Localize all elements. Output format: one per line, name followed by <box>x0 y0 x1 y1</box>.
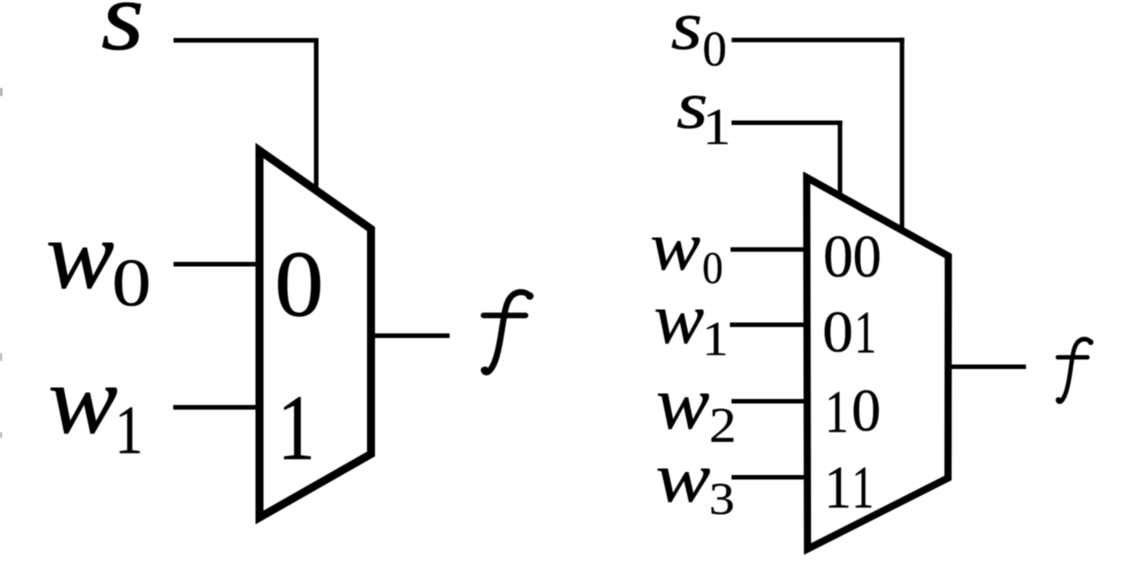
svg-text:w: w <box>650 208 700 284</box>
svg-text:s: s <box>101 0 144 70</box>
svg-text:3: 3 <box>709 475 735 525</box>
svg-text:0: 0 <box>853 223 882 289</box>
svg-text:1: 1 <box>825 377 849 445</box>
svg-text:1: 1 <box>854 300 876 366</box>
svg-text:1: 1 <box>702 312 728 366</box>
svg-text:0: 0 <box>702 243 723 293</box>
svg-text:0: 0 <box>112 244 151 320</box>
svg-text:1: 1 <box>852 455 874 521</box>
svg-text:w: w <box>654 280 704 360</box>
svg-text:0: 0 <box>823 223 853 290</box>
svg-text:1: 1 <box>278 378 316 480</box>
svg-text:s: s <box>671 0 703 65</box>
svg-text:w: w <box>656 439 711 517</box>
svg-text:0: 0 <box>852 377 881 444</box>
svg-text:1: 1 <box>703 98 731 155</box>
svg-text:w: w <box>48 346 118 454</box>
svg-text:w: w <box>46 200 115 308</box>
svg-text:0: 0 <box>822 300 853 365</box>
svg-text:0: 0 <box>275 231 324 335</box>
svg-text:1: 1 <box>115 392 143 469</box>
svg-text:w: w <box>656 362 710 445</box>
svg-text:2: 2 <box>709 399 736 453</box>
svg-text:1: 1 <box>824 455 851 521</box>
